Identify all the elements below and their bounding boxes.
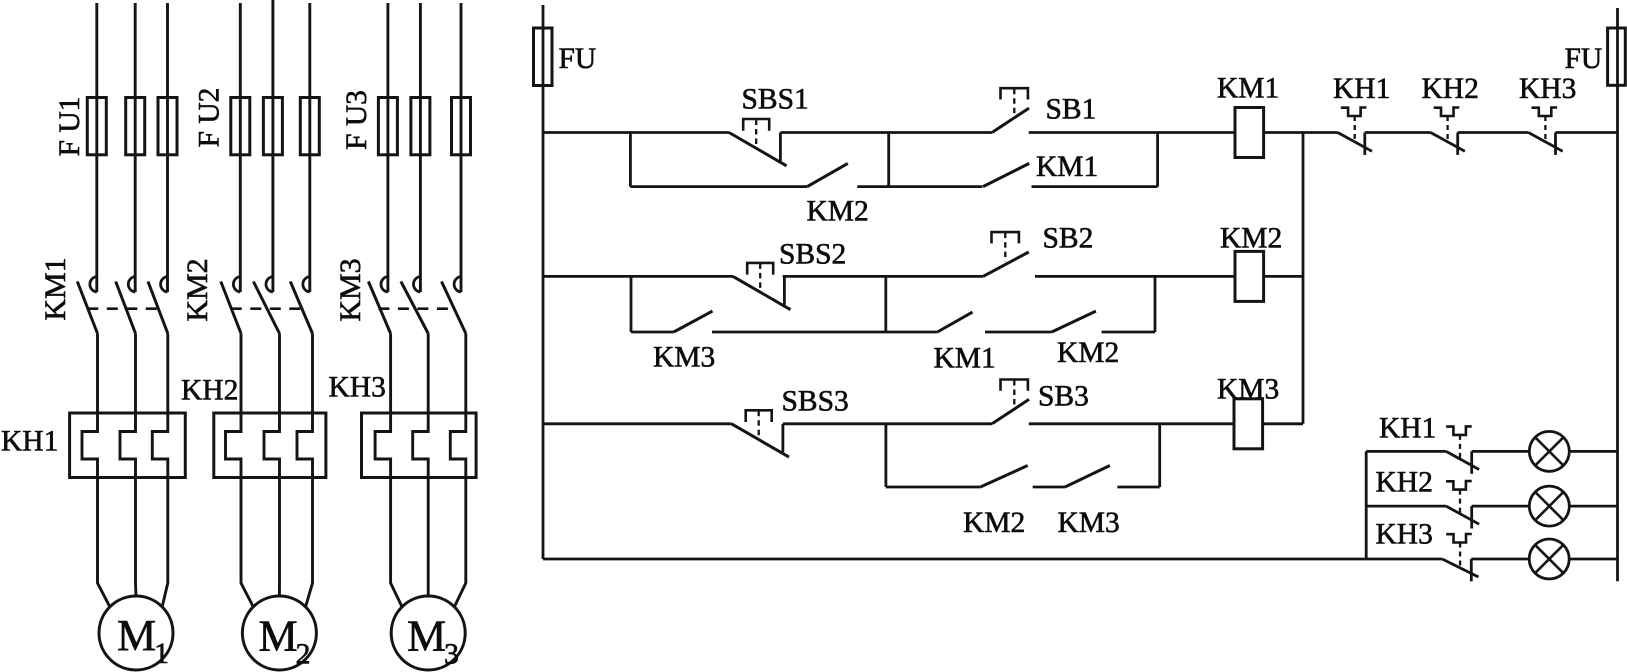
label SBS3 bbox=[782, 386, 849, 418]
wire: rung1 branch left segment bbox=[630, 185, 807, 188]
interlock contact KM3 (NO) on rung2 branch bbox=[674, 311, 713, 332]
wire: junction rise rung1 at x1157 bbox=[1156, 133, 1159, 187]
thermal relay KH3 box bbox=[362, 413, 477, 478]
label KH1 (lamp branch) bbox=[1379, 413, 1436, 445]
wire: rung1 branch right segment bbox=[1032, 185, 1158, 188]
svg-text:KM1: KM1 bbox=[1217, 73, 1279, 105]
label KH1 (top row) bbox=[1333, 73, 1390, 105]
mechanical linkage of KM1 (dashed) bbox=[87, 307, 160, 310]
label SB3 bbox=[1038, 381, 1089, 413]
stop button SBS1 (NC pushbutton) bbox=[729, 119, 787, 166]
self-holding contact KM2 (NO) on rung3 branch bbox=[980, 466, 1027, 488]
label KM3 (rotated) bbox=[334, 258, 367, 321]
contact KM2 (NO) on rung2 branch bbox=[1052, 311, 1096, 332]
contactor KM1 main contact pole 1 (hook and blade) bbox=[77, 277, 97, 334]
svg-text:KM2: KM2 bbox=[1220, 223, 1282, 255]
wire with thermal relay KH2 heater element pole 3 bbox=[297, 334, 313, 607]
wire: supply phase 1 of motor branch 2 bbox=[239, 3, 242, 292]
fuse FU1 element 3 bbox=[158, 98, 177, 155]
label SBS1 bbox=[742, 84, 809, 116]
svg-text:M: M bbox=[259, 612, 298, 661]
svg-text:KM3: KM3 bbox=[334, 258, 367, 321]
wire: left control rail bbox=[542, 5, 545, 559]
wire: right control rail bbox=[1616, 8, 1619, 581]
svg-text:KM3: KM3 bbox=[653, 342, 715, 374]
svg-text:KH2: KH2 bbox=[1422, 73, 1479, 105]
label SBS2 bbox=[779, 239, 846, 271]
wire: supply phase 3 of motor branch 3 bbox=[460, 3, 463, 292]
mechanical linkage of KM2 (dashed) bbox=[231, 307, 303, 310]
svg-text:FU: FU bbox=[1565, 43, 1603, 75]
svg-text:KH1: KH1 bbox=[1, 426, 58, 458]
wire: rung3 coil to collector bbox=[1263, 422, 1303, 425]
label KH2 (top row) bbox=[1422, 73, 1479, 105]
svg-text:F U1: F U1 bbox=[54, 97, 86, 157]
wire: rung2 left segment bbox=[543, 275, 733, 278]
svg-text:SB2: SB2 bbox=[1043, 223, 1094, 255]
svg-text:KH1: KH1 bbox=[1333, 73, 1390, 105]
wire: bottom control rail bbox=[543, 558, 1442, 561]
wire: lamp branch2 to lamp bbox=[1472, 505, 1530, 508]
svg-text:2: 2 bbox=[296, 638, 311, 671]
contactor KM2 main contact pole 1 (hook and blade) bbox=[221, 277, 241, 334]
label SB2 bbox=[1043, 223, 1094, 255]
wire: rung1 KH3 to right rail bbox=[1556, 131, 1618, 134]
svg-text:KM2: KM2 bbox=[963, 507, 1025, 539]
label KH2 bbox=[181, 375, 238, 407]
thermal relay KH2 box bbox=[214, 413, 326, 478]
label KM2 (rung2 branch) bbox=[1057, 337, 1119, 369]
contactor KM2 main contact pole 3 (hook and blade) bbox=[290, 277, 312, 334]
mechanical linkage of KM3 (dashed) bbox=[378, 307, 454, 310]
contactor KM3 main contact pole 3 (hook and blade) bbox=[442, 277, 466, 334]
wire: rung1 SB1 to coil KM1 bbox=[1029, 131, 1235, 134]
label KM2 (rotated) bbox=[181, 258, 214, 321]
wire: junction drop rung2 at x631 bbox=[630, 276, 633, 332]
svg-text:KM1: KM1 bbox=[39, 257, 72, 320]
wire: supply phase 3 of motor branch 1 bbox=[166, 3, 169, 292]
wire: supply phase 2 of motor branch 3 bbox=[419, 3, 422, 292]
wire: lamp branch3 to lamp bbox=[1471, 558, 1529, 561]
wire: rung1 coil to KH1 bbox=[1264, 131, 1338, 134]
wire: rung2 SBS2 to SB2 bbox=[783, 275, 983, 278]
fuse FU (left, control circuit) bbox=[534, 28, 553, 86]
label KM2 (coil) bbox=[1220, 223, 1282, 255]
fuse FU1 element 2 bbox=[126, 98, 145, 155]
svg-text:KM2: KM2 bbox=[181, 258, 214, 321]
wire: supply phase 3 of motor branch 2 bbox=[308, 3, 311, 292]
svg-text:FU: FU bbox=[559, 43, 597, 75]
wire: rung3 SBS3 to SB3 bbox=[783, 422, 992, 425]
label KH3 bbox=[329, 372, 386, 404]
svg-text:SB1: SB1 bbox=[1046, 94, 1097, 126]
wire: rung1 KH2 to KH3 bbox=[1458, 131, 1529, 134]
svg-text:F U2: F U2 bbox=[194, 88, 226, 148]
svg-text:SBS2: SBS2 bbox=[779, 239, 846, 271]
wire: junction drop rung1 at x630 bbox=[629, 133, 632, 187]
fuse FU2 element 1 bbox=[231, 98, 250, 155]
wire: junction rise rung3 at x1160 bbox=[1158, 424, 1161, 487]
label FU (left) bbox=[559, 43, 597, 75]
svg-text:SBS3: SBS3 bbox=[782, 386, 849, 418]
svg-text:M: M bbox=[117, 611, 156, 660]
contact KM1 (NO) on rung2 branch bbox=[937, 312, 972, 332]
wire: rung3 branch segment c bbox=[1117, 486, 1159, 489]
thermal contact KH1 (NC) on rung1 bbox=[1338, 108, 1372, 155]
self-holding contact KM1 (NO) on rung1 branch bbox=[983, 163, 1029, 186]
contactor KM3 main contact pole 1 (hook and blade) bbox=[368, 277, 390, 334]
wire with thermal relay KH1 heater element pole 1 bbox=[82, 334, 110, 607]
wire with thermal relay KH3 heater element pole 3 bbox=[450, 334, 466, 607]
wire: lamp feeder vertical bbox=[1365, 451, 1368, 559]
svg-text:KM2: KM2 bbox=[1057, 337, 1119, 369]
indicator lamp HL1 bbox=[1529, 431, 1569, 471]
thermal contact KH3 (signal lamp branch) bbox=[1442, 534, 1478, 581]
thermal contact KH1 (signal lamp branch) bbox=[1446, 426, 1479, 473]
motor M3 bbox=[391, 596, 465, 671]
fuse FU (right, control circuit) bbox=[1608, 28, 1626, 85]
wire: rung3 branch segment a bbox=[886, 486, 981, 489]
interlock contact KM2 (NO) on rung1 branch bbox=[807, 163, 848, 186]
fuse FU3 element 2 bbox=[411, 98, 430, 155]
wire with thermal relay KH3 heater element pole 2 bbox=[413, 334, 429, 597]
start button SB3 (NO pushbutton) bbox=[992, 380, 1029, 424]
contactor coil KM3 bbox=[1234, 399, 1263, 449]
label FU (right) bbox=[1565, 43, 1603, 75]
wire: lamp branch1 to right rail bbox=[1569, 450, 1617, 453]
wire with thermal relay KH2 heater element pole 2 bbox=[264, 334, 280, 597]
fuse FU3 element 3 bbox=[452, 98, 471, 155]
label FU3 bbox=[341, 90, 373, 150]
stop button SBS2 (NC pushbutton) bbox=[733, 263, 791, 310]
fuse FU1 element 1 bbox=[87, 98, 106, 155]
contactor KM2 main contact pole 2 (hook and blade) bbox=[253, 277, 279, 334]
wire: lamp branch2 to right rail bbox=[1569, 505, 1617, 508]
wire: rung1 branch middle segment bbox=[857, 185, 982, 188]
wire: lamp branch1 left bbox=[1366, 450, 1446, 453]
contactor KM1 main contact pole 3 (hook and blade) bbox=[148, 277, 168, 334]
label KH3 (top row) bbox=[1519, 73, 1576, 105]
wire: rung3 SB3 to coil KM3 bbox=[1029, 422, 1234, 425]
wire: rung3 branch segment b bbox=[1033, 486, 1065, 489]
start button SB2 (NO pushbutton) bbox=[983, 232, 1029, 276]
svg-text:F U3: F U3 bbox=[341, 90, 373, 150]
contactor coil KM1 bbox=[1235, 108, 1264, 158]
thermal contact KH3 (NC) on rung1 bbox=[1528, 108, 1562, 155]
wire: supply phase 1 of motor branch 3 bbox=[386, 3, 389, 292]
svg-text:SB3: SB3 bbox=[1038, 381, 1089, 413]
fuse FU3 element 1 bbox=[378, 98, 397, 155]
fuse FU2 element 3 bbox=[300, 98, 319, 155]
svg-text:KM1: KM1 bbox=[934, 343, 996, 375]
thermal relay KH1 box bbox=[70, 413, 186, 478]
label FU1 bbox=[54, 97, 86, 157]
motor M2 bbox=[242, 596, 316, 671]
label KH3 (lamp branch) bbox=[1376, 519, 1433, 551]
label KM3 (rung3 branch) bbox=[1058, 507, 1120, 539]
svg-text:KH2: KH2 bbox=[1376, 467, 1433, 499]
label KM3 (coil) bbox=[1217, 374, 1279, 406]
svg-text:KH2: KH2 bbox=[181, 375, 238, 407]
stop button SBS3 (NC pushbutton) bbox=[732, 410, 790, 457]
wire: rung1 left segment bbox=[543, 131, 729, 134]
svg-text:KH3: KH3 bbox=[1376, 519, 1433, 551]
wire: supply phase 2 of motor branch 2 bbox=[271, 0, 274, 292]
wire: output collector vertical bbox=[1302, 133, 1305, 424]
motor M1 bbox=[99, 596, 173, 670]
wire: supply phase 1 of motor branch 1 bbox=[95, 3, 98, 292]
label KH2 (lamp branch) bbox=[1376, 467, 1433, 499]
wire: junction rise rung2 at x1155 bbox=[1154, 276, 1157, 332]
wire: rung3 left segment bbox=[543, 422, 732, 425]
wire with thermal relay KH1 heater element pole 2 bbox=[120, 334, 136, 597]
thermal contact KH2 (NC) on rung1 bbox=[1431, 108, 1465, 155]
wire: rung2 branch segment a bbox=[631, 331, 674, 334]
wire: supply phase 2 of motor branch 1 bbox=[134, 3, 137, 292]
wire with thermal relay KH1 heater element pole 3 bbox=[152, 334, 168, 607]
wire: rung1 SBS1 to SB1 bbox=[780, 131, 992, 134]
svg-text:M: M bbox=[407, 612, 446, 661]
svg-text:KM1: KM1 bbox=[1036, 151, 1098, 183]
label KM2 (rung1 branch) bbox=[807, 196, 869, 228]
label KM2 (rung3 branch) bbox=[963, 507, 1025, 539]
label KM1 (rung2 branch) bbox=[934, 343, 996, 375]
wire: rung2 branch segment d bbox=[1102, 331, 1156, 334]
wire: rung2 branch segment b bbox=[712, 331, 937, 334]
fuse FU2 element 2 bbox=[263, 98, 282, 155]
svg-text:KH3: KH3 bbox=[329, 372, 386, 404]
svg-text:SBS1: SBS1 bbox=[742, 84, 809, 116]
contactor KM1 main contact pole 2 (hook and blade) bbox=[116, 277, 136, 334]
svg-text:1: 1 bbox=[154, 637, 169, 670]
svg-text:KH3: KH3 bbox=[1519, 73, 1576, 105]
svg-text:KM2: KM2 bbox=[807, 196, 869, 228]
wire: rung2 coil to collector bbox=[1264, 275, 1303, 278]
svg-text:KM3: KM3 bbox=[1217, 374, 1279, 406]
label SB1 bbox=[1046, 94, 1097, 126]
wire: lamp branch3 to right rail bbox=[1569, 558, 1617, 561]
thermal contact KH2 (signal lamp branch) bbox=[1446, 481, 1479, 528]
label KH1 bbox=[1, 426, 58, 458]
label KM1 (self-holding contact) bbox=[1036, 151, 1098, 183]
label KM1 (rotated) bbox=[39, 257, 72, 320]
wire: junction drop rung3 at x886 bbox=[885, 424, 888, 487]
wire: junction drop rung2 at x886 bbox=[884, 276, 887, 332]
wire: junction drop rung1 at x888 bbox=[887, 133, 890, 187]
wire with thermal relay KH3 heater element pole 1 bbox=[375, 334, 402, 607]
wire: rung2 SB2 to coil KM2 bbox=[1035, 275, 1235, 278]
start button SB1 (NO pushbutton) bbox=[992, 88, 1029, 132]
wire: lamp branch2 left bbox=[1366, 505, 1446, 508]
indicator lamp HL3 bbox=[1529, 539, 1569, 579]
contactor KM3 main contact pole 2 (hook and blade) bbox=[401, 277, 428, 334]
wire with thermal relay KH2 heater element pole 1 bbox=[226, 334, 254, 607]
label FU2 bbox=[194, 88, 226, 148]
svg-text:3: 3 bbox=[444, 638, 459, 671]
svg-text:KM3: KM3 bbox=[1058, 507, 1120, 539]
wire: lamp branch1 to lamp bbox=[1472, 450, 1530, 453]
label KM3 (rung2 branch) bbox=[653, 342, 715, 374]
contactor coil KM2 bbox=[1235, 251, 1264, 301]
svg-text:KH1: KH1 bbox=[1379, 413, 1436, 445]
contact KM3 (NO) on rung3 branch bbox=[1065, 466, 1110, 488]
label KM1 (coil) bbox=[1217, 73, 1279, 105]
wire: rung2 branch segment c bbox=[985, 331, 1052, 334]
wire: rung1 KH1 to KH2 bbox=[1365, 131, 1431, 134]
indicator lamp HL2 bbox=[1529, 486, 1569, 526]
